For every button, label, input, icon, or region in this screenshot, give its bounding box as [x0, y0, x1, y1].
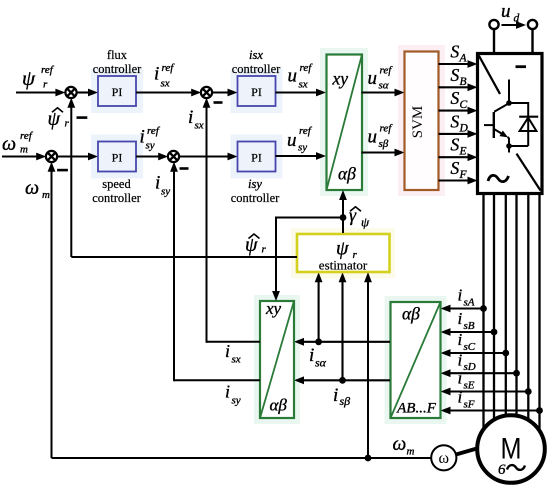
- inverter AC tilde: [488, 175, 509, 181]
- label i_sx output: [225, 341, 241, 366]
- wire gamma_hat from estimator to voltage transform: [339, 190, 347, 233]
- label u_d: [501, 1, 520, 25]
- wire current i_sD to alpha-beta block: [441, 369, 517, 377]
- svg-text:ψ: ψ: [22, 66, 36, 90]
- svg-text:ref: ref: [300, 62, 314, 74]
- svg-text:m: m: [20, 144, 28, 156]
- label omega_m_ref: [2, 130, 34, 156]
- svg-text:S: S: [451, 88, 460, 108]
- label psi_r_hat (feedback): [48, 108, 70, 130]
- label S_D: [451, 111, 469, 134]
- svg-text:i: i: [225, 341, 230, 361]
- svg-text:xy: xy: [265, 299, 282, 318]
- wire i_s_beta to estimator: [339, 272, 347, 380]
- label u_s_alpha_ref: [368, 65, 394, 92]
- svg-text:ω: ω: [2, 133, 16, 155]
- xy to alpha-beta voltage transform block: [327, 55, 363, 191]
- svg-text:sβ: sβ: [340, 394, 351, 408]
- svg-text:sC: sC: [464, 341, 476, 353]
- svg-text:i: i: [155, 173, 160, 194]
- PI block isy controller: [238, 142, 276, 172]
- svg-text:S: S: [451, 158, 460, 178]
- svg-text:6: 6: [498, 462, 506, 478]
- svg-text:controller: controller: [93, 62, 142, 76]
- isx controller label: [232, 48, 281, 76]
- svg-text:sβ: sβ: [379, 138, 389, 150]
- svg-text:i: i: [188, 107, 193, 128]
- DC link terminal +: [489, 20, 498, 53]
- svg-text:xy: xy: [332, 68, 349, 88]
- label u_s_beta_ref: [368, 123, 394, 150]
- node IGBT collector: [506, 100, 512, 106]
- svg-text:ψ: ψ: [245, 234, 258, 256]
- node i_s_beta tap: [339, 377, 346, 384]
- wire gate signal S_A: [439, 60, 478, 68]
- alpha-beta to xy current transform block: [260, 299, 294, 418]
- wire isx PI to xy-ab block: [276, 89, 327, 97]
- minus sign at SJ2: [57, 169, 68, 172]
- svg-text:ψ: ψ: [361, 215, 370, 230]
- svg-text:sα: sα: [315, 356, 327, 370]
- sensor shaft: [456, 448, 479, 455]
- svg-text:S: S: [451, 65, 460, 85]
- node tap i_sE: [525, 388, 532, 395]
- label S_E: [451, 135, 467, 158]
- emitter stub: [508, 146, 510, 153]
- svg-text:SVM: SVM: [410, 106, 426, 139]
- wire flux PI to SJ3: [136, 89, 201, 97]
- label S_C: [451, 88, 468, 111]
- svg-text:i: i: [154, 64, 159, 85]
- wire motor phase F: [538, 195, 540, 432]
- svg-text:u: u: [368, 68, 378, 89]
- node tap i_sF: [536, 407, 543, 414]
- wire motor phase E: [527, 195, 529, 432]
- label i_sF: [458, 388, 475, 411]
- svg-text:controller: controller: [92, 191, 141, 205]
- transistor Q1 (IGBT): [484, 103, 509, 146]
- label i_sy_ref: [140, 125, 161, 152]
- wire SJ1 to flux PI: [76, 89, 98, 97]
- svg-text:i: i: [458, 369, 463, 388]
- label i_sx feedback at SJ3: [188, 107, 204, 132]
- wire gate signal S_E: [439, 153, 478, 161]
- svg-text:PI: PI: [112, 85, 123, 99]
- SVM block: [405, 52, 439, 191]
- isy controller label: [231, 177, 280, 205]
- svg-text:S: S: [451, 111, 460, 131]
- PI block speed controller: [98, 142, 136, 172]
- svg-text:sy: sy: [298, 142, 307, 154]
- svg-text:ψ: ψ: [336, 238, 349, 260]
- svg-text:m: m: [42, 189, 50, 201]
- svg-text:F: F: [459, 169, 468, 181]
- svg-text:C: C: [460, 99, 468, 111]
- svg-text:estimator: estimator: [319, 258, 368, 273]
- label psi_r_ref: [22, 64, 55, 91]
- wire psi_r_ref input: [16, 89, 65, 97]
- wire current i_sE to alpha-beta block: [441, 388, 529, 396]
- svg-text:B: B: [460, 76, 467, 88]
- speed controller label: [92, 177, 141, 205]
- wire diode anode to emitter: [509, 145, 528, 147]
- wire u_s_alpha to SVM: [362, 89, 405, 97]
- label omega_m (feedback): [25, 177, 50, 201]
- node tap i_sA: [480, 305, 487, 312]
- PI block flux controller: [98, 76, 136, 106]
- svg-text:u: u: [287, 130, 297, 151]
- svg-text:sy: sy: [146, 140, 155, 152]
- inverter bottom-right diagonal: [517, 154, 541, 191]
- svg-text:controller: controller: [232, 62, 281, 76]
- svg-text:sx: sx: [161, 78, 170, 90]
- wire isy PI to xy-ab block: [276, 152, 327, 160]
- wire SJ2 to speed PI: [57, 153, 98, 161]
- label u_sx_ref: [288, 62, 314, 90]
- svg-text:i: i: [309, 345, 314, 366]
- svg-text:S: S: [451, 135, 460, 155]
- svg-text:sB: sB: [464, 320, 475, 332]
- label S_B: [451, 65, 467, 88]
- wire i_s_alpha to estimator: [315, 272, 323, 342]
- wire speed PI to SJ4: [136, 153, 168, 161]
- svg-text:r: r: [262, 244, 267, 256]
- label i_sC: [458, 330, 476, 353]
- wire collector to diode cathode: [509, 102, 528, 117]
- svg-text:αβ: αβ: [338, 164, 356, 184]
- wire current i_sC to alpha-beta block: [441, 349, 506, 357]
- node tap i_sC: [502, 350, 509, 357]
- svg-text:sD: sD: [464, 361, 476, 373]
- svg-text:PI: PI: [251, 85, 262, 99]
- svg-text:u: u: [288, 65, 298, 86]
- minus sign at SJ4: [180, 167, 189, 170]
- label i_sx_ref: [154, 62, 175, 90]
- wire i_sx feedback: [203, 98, 260, 343]
- node i_s_alpha tap: [315, 338, 322, 345]
- label i_s_beta: [333, 385, 350, 408]
- svg-text:sx: sx: [195, 120, 204, 132]
- label gamma_hat_psi: [349, 205, 370, 230]
- wire i_s_alpha: [294, 338, 390, 346]
- svg-text:i: i: [458, 350, 463, 369]
- summing junction SJ2 (speed): [46, 151, 57, 162]
- svg-text:i: i: [333, 385, 338, 406]
- wire i_sy feedback: [170, 162, 260, 381]
- svg-text:sF: sF: [464, 399, 475, 411]
- node gamma_hat: [340, 214, 347, 221]
- label i_sE: [458, 369, 475, 392]
- wire SJ3 to isx PI: [212, 89, 238, 97]
- svg-text:sy: sy: [161, 186, 170, 198]
- svg-text:u: u: [501, 1, 511, 22]
- svg-text:sA: sA: [464, 297, 475, 309]
- PI block isx controller: [238, 76, 276, 106]
- inverter minus sign: [516, 65, 527, 68]
- label i_sy output: [225, 382, 241, 407]
- svg-text:r: r: [43, 79, 48, 91]
- svg-text:i: i: [458, 388, 463, 407]
- AB..F to alpha-beta current transform block: [391, 302, 441, 418]
- wire gate signal S_C: [439, 107, 478, 115]
- minus sign at SJ3: [214, 101, 223, 104]
- DC link terminal -: [528, 20, 537, 53]
- inverter top-left diagonal: [479, 56, 500, 95]
- arrow u_d direction: [502, 21, 527, 29]
- svg-text:ref: ref: [41, 64, 55, 76]
- svg-text:sx: sx: [232, 354, 241, 366]
- svg-text:E: E: [459, 146, 467, 158]
- wire motor phase B: [493, 195, 495, 432]
- svg-text:speed: speed: [102, 177, 131, 191]
- svg-text:i: i: [458, 330, 463, 349]
- label S_A: [451, 42, 468, 65]
- label i_sB: [458, 309, 475, 332]
- svg-text:ω: ω: [439, 450, 450, 467]
- summing junction SJ4 (isy): [168, 151, 179, 162]
- wire gate signal S_B: [439, 83, 478, 91]
- svg-text:i: i: [458, 309, 463, 328]
- wire i_s_beta: [294, 376, 390, 384]
- svg-text:flux: flux: [107, 48, 128, 62]
- svg-text:isx: isx: [249, 48, 263, 62]
- label i_s_alpha: [309, 345, 327, 370]
- svg-text:ref: ref: [380, 65, 394, 77]
- svg-text:ref: ref: [380, 123, 394, 135]
- wire current i_sB to alpha-beta block: [441, 328, 495, 336]
- svg-text:A: A: [459, 53, 468, 65]
- label S_F: [451, 158, 468, 181]
- flux estimator block: [297, 234, 390, 273]
- motor M 6-phase: [477, 415, 545, 483]
- svg-text:u: u: [368, 126, 378, 147]
- svg-text:i: i: [225, 382, 230, 402]
- svg-text:ω: ω: [25, 177, 39, 199]
- wire gate signal S_D: [439, 130, 478, 138]
- label omega_m bottom: [393, 434, 415, 458]
- svg-text:i: i: [140, 126, 145, 147]
- halo tints (decorative): [91, 45, 447, 424]
- wire psi_r_hat feedback to SJ1: [67, 98, 297, 257]
- svg-text:D: D: [459, 122, 469, 134]
- svg-text:r: r: [65, 118, 70, 130]
- summing junction SJ3 (isx): [201, 87, 212, 98]
- speed sensor circle: [431, 445, 456, 470]
- wire speed feedback bottom: [48, 162, 432, 458]
- svg-text:ref: ref: [299, 125, 313, 137]
- wire current i_sA to alpha-beta block: [441, 305, 484, 313]
- svg-text:ref: ref: [147, 125, 161, 137]
- node IGBT emitter: [506, 143, 512, 149]
- svg-text:controller: controller: [231, 191, 280, 205]
- minus sign at SJ1: [77, 116, 88, 119]
- svg-text:AB...F: AB...F: [396, 401, 437, 417]
- wire gamma_hat branch to current transform: [272, 217, 344, 302]
- svg-text:αβ: αβ: [270, 396, 288, 415]
- svg-text:αβ: αβ: [402, 304, 420, 324]
- svg-text:M: M: [501, 431, 522, 465]
- svg-text:ref: ref: [162, 62, 176, 74]
- svg-text:S: S: [451, 42, 460, 62]
- summing junction SJ1 (flux): [65, 87, 76, 98]
- svg-text:PI: PI: [112, 151, 123, 165]
- wire motor phase C: [505, 195, 507, 432]
- wire gate signal S_F: [439, 177, 478, 185]
- svg-text:m: m: [407, 446, 415, 458]
- diode D1 (freewheeling, pointing up): [519, 117, 538, 146]
- label u_sy_ref: [287, 125, 313, 154]
- node tap i_sD: [513, 370, 520, 377]
- label i_sy feedback at SJ4: [155, 173, 170, 198]
- svg-text:isy: isy: [248, 177, 262, 191]
- wire SJ4 to isy PI: [179, 153, 238, 161]
- svg-text:sx: sx: [299, 78, 308, 90]
- node speed feedback junction: [365, 455, 372, 462]
- flux controller label: [93, 48, 142, 76]
- inverter block outline: [478, 54, 543, 194]
- IGBT collector stub: [508, 80, 510, 104]
- wire motor phase A: [482, 195, 484, 432]
- label psi_r_hat near estimator: [245, 234, 267, 256]
- svg-text:sE: sE: [464, 380, 475, 392]
- svg-text:sy: sy: [232, 395, 241, 407]
- wire u_s_beta to SVM: [362, 149, 405, 157]
- label i_sA: [458, 286, 475, 309]
- svg-text:ref: ref: [20, 130, 34, 142]
- wire current i_sF to alpha-beta block: [441, 407, 540, 415]
- svg-text:ω: ω: [393, 434, 407, 455]
- wire omega_m to estimator: [364, 272, 372, 458]
- svg-text:sα: sα: [379, 80, 389, 92]
- wire omega_m_ref input: [2, 153, 46, 161]
- wire motor phase D: [515, 195, 517, 432]
- label i_sD: [458, 350, 476, 373]
- svg-text:i: i: [458, 286, 463, 305]
- svg-text:PI: PI: [251, 151, 262, 165]
- node tap i_sB: [491, 329, 498, 336]
